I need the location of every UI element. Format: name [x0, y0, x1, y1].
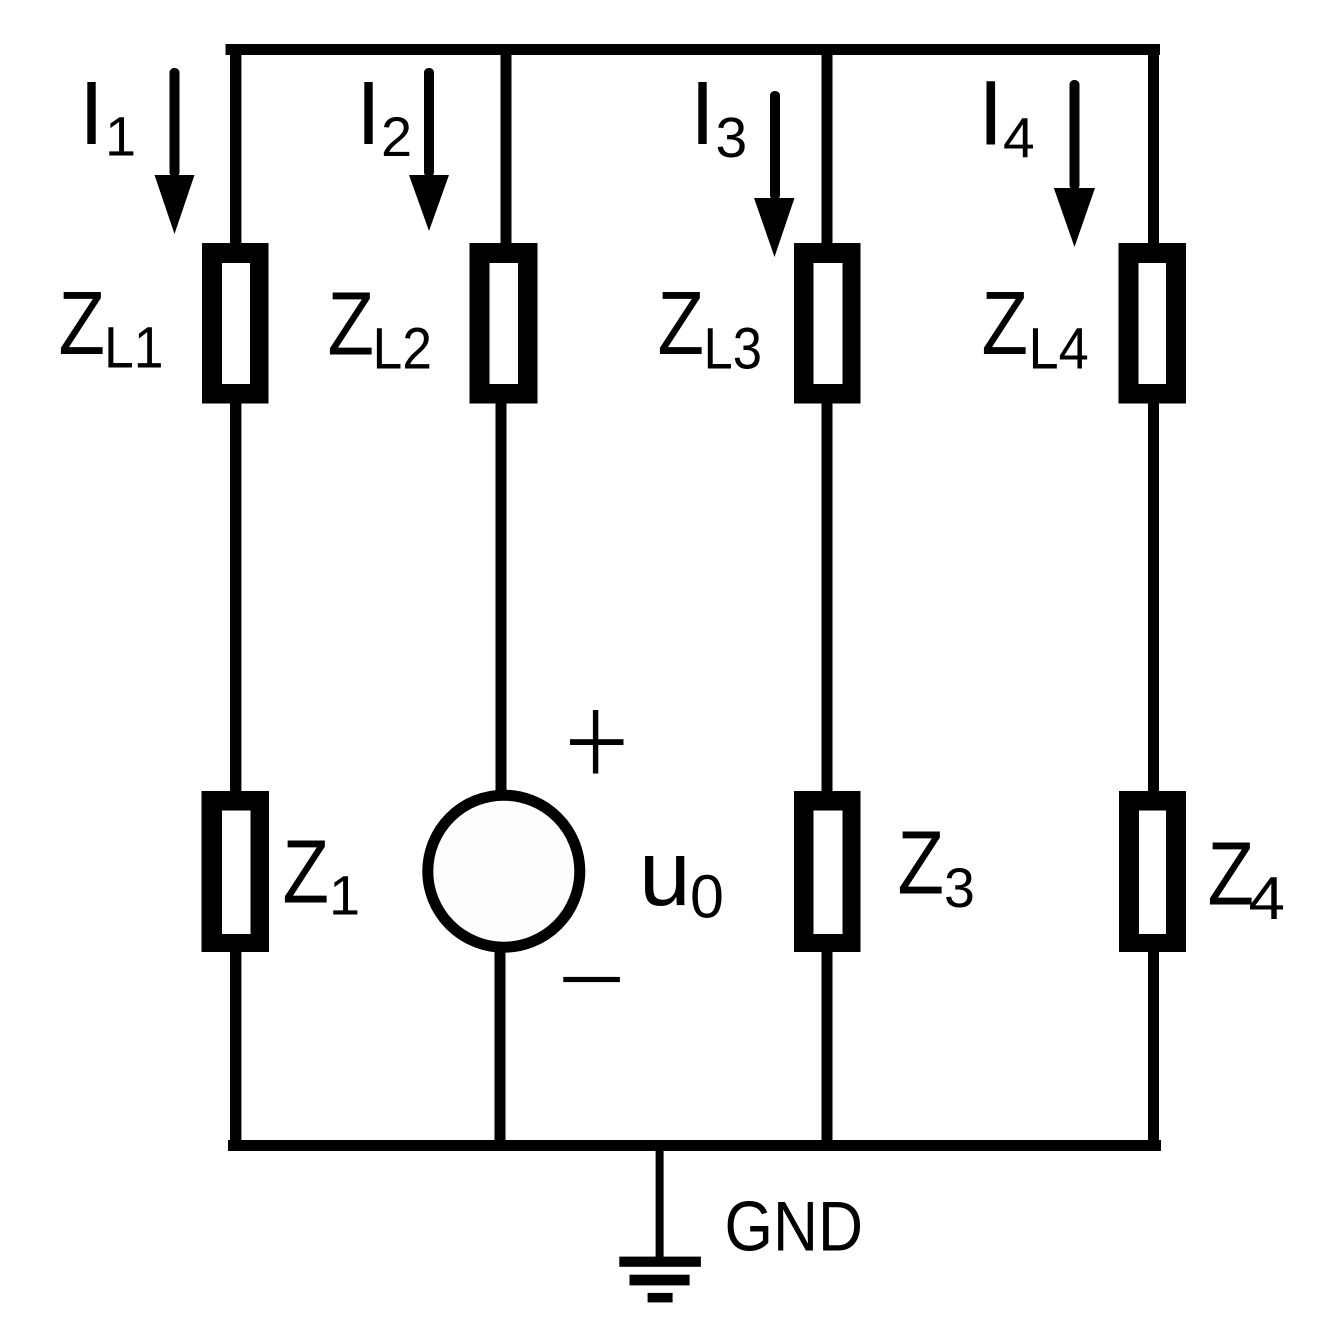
svg-text:Z: Z: [982, 274, 1029, 374]
svg-text:I: I: [690, 64, 715, 164]
wire branch1 upper: [230, 44, 241, 243]
label Z_L3: [658, 274, 763, 382]
label Z1: [283, 823, 361, 927]
minus sign of u0: [563, 977, 620, 982]
svg-text:L3: L3: [704, 317, 763, 382]
label I1: [79, 64, 136, 168]
label Z_L4: [982, 274, 1089, 382]
wire branch4 middle: [1148, 403, 1159, 791]
voltage source u0: [428, 795, 580, 947]
impedance Z1: [202, 791, 270, 952]
wire branch4 lower: [1148, 952, 1159, 1147]
svg-text:Z: Z: [59, 274, 106, 374]
impedance Z_L1: [202, 243, 269, 404]
wire branch3 middle: [822, 403, 833, 791]
svg-text:4: 4: [1003, 107, 1035, 171]
svg-text:Z: Z: [328, 275, 375, 375]
label I4: [978, 63, 1035, 171]
svg-text:L4: L4: [1029, 317, 1089, 382]
wire branch2 upper: [501, 44, 512, 243]
wire bottom bus: [228, 1140, 1161, 1151]
svg-text:L2: L2: [373, 317, 433, 382]
wire branch2 lower: [495, 952, 506, 1147]
ground: [619, 1151, 701, 1302]
svg-text:L1: L1: [104, 316, 164, 381]
label Z4: [1208, 825, 1286, 933]
svg-text:0: 0: [690, 863, 724, 931]
label u0: [639, 821, 724, 931]
current arrow I1: [155, 68, 195, 234]
impedance Z_L2: [470, 243, 538, 404]
plus sign of u0: [570, 710, 624, 774]
wire branch3 lower: [822, 952, 833, 1147]
svg-text:Z: Z: [283, 823, 330, 923]
current arrow I3: [754, 91, 795, 257]
svg-text:Z: Z: [898, 814, 945, 914]
svg-text:I: I: [79, 64, 104, 164]
wire branch2 middle: [496, 403, 507, 791]
label Z_L2: [328, 275, 433, 382]
current arrow I4: [1054, 80, 1095, 247]
wire branch1 middle: [230, 403, 241, 791]
svg-text:GND: GND: [725, 1187, 864, 1266]
svg-text:1: 1: [105, 105, 136, 168]
label Z3: [898, 814, 975, 920]
wire top bus: [226, 44, 1161, 55]
wire branch4 upper: [1148, 44, 1159, 243]
svg-text:Z: Z: [658, 274, 705, 374]
wire branch1 lower: [230, 952, 241, 1147]
svg-text:I: I: [978, 63, 1004, 165]
label Z_L1: [59, 274, 164, 381]
impedance Z_L3: [794, 243, 861, 404]
svg-text:I: I: [356, 64, 381, 164]
svg-text:3: 3: [716, 106, 748, 170]
label I2: [356, 64, 412, 168]
svg-text:3: 3: [944, 857, 975, 919]
svg-text:4: 4: [1249, 865, 1286, 932]
impedance Z3: [794, 791, 861, 952]
svg-text:1: 1: [329, 864, 360, 927]
wire branch3 upper: [822, 44, 833, 243]
svg-text:2: 2: [381, 105, 412, 168]
svg-text:u: u: [639, 821, 691, 925]
svg-text:Z: Z: [1208, 825, 1255, 925]
impedance Z4: [1119, 791, 1186, 952]
current arrow I2: [409, 68, 449, 231]
label I3: [690, 64, 747, 170]
impedance Z_L4: [1119, 243, 1187, 404]
